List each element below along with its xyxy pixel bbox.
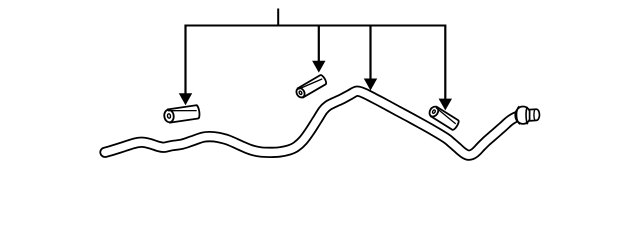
- clip 1 facet line: [168, 107, 197, 115]
- clip 3 hole: [432, 109, 436, 113]
- fitting cap: [530, 109, 540, 121]
- fitting cap groove: [533, 109, 536, 120]
- tube (fuel line) outer stroke: [105, 91, 527, 155]
- arrow 3 head: [364, 79, 377, 91]
- clip 2 end face: [295, 87, 306, 99]
- arrow 2 head: [312, 61, 325, 73]
- arrow 3 stem: [369, 25, 371, 80]
- clip 1 end face: [163, 109, 174, 123]
- fitting (connector nut at right end): [515, 106, 539, 124]
- clip 1 body: [168, 105, 200, 123]
- clip 2 facet line: [298, 76, 322, 92]
- arrow 2 stem: [318, 25, 320, 63]
- fitting left crescent: [516, 106, 520, 124]
- clip 2 body: [298, 74, 328, 97]
- clip 3 body: [431, 107, 460, 131]
- clip 3: [428, 105, 460, 131]
- tube inner white: [105, 91, 527, 155]
- clip 3 facet line: [434, 108, 457, 124]
- clip 1 hole: [167, 114, 171, 119]
- fitting ball: [515, 107, 530, 124]
- arrow 4 stem: [444, 25, 446, 101]
- arrow 1 stem: [184, 25, 186, 95]
- clip 2 hole: [299, 91, 303, 95]
- clip 1: [163, 105, 200, 123]
- callout bracket horizontal bar: [186, 25, 446, 27]
- arrow 4 head: [439, 99, 452, 111]
- clip 2: [295, 74, 328, 99]
- clip 3 end face: [428, 105, 440, 118]
- arrow 1 head: [179, 93, 192, 105]
- fitting middle arc: [526, 107, 528, 125]
- callout leader tick: [277, 9, 279, 26]
